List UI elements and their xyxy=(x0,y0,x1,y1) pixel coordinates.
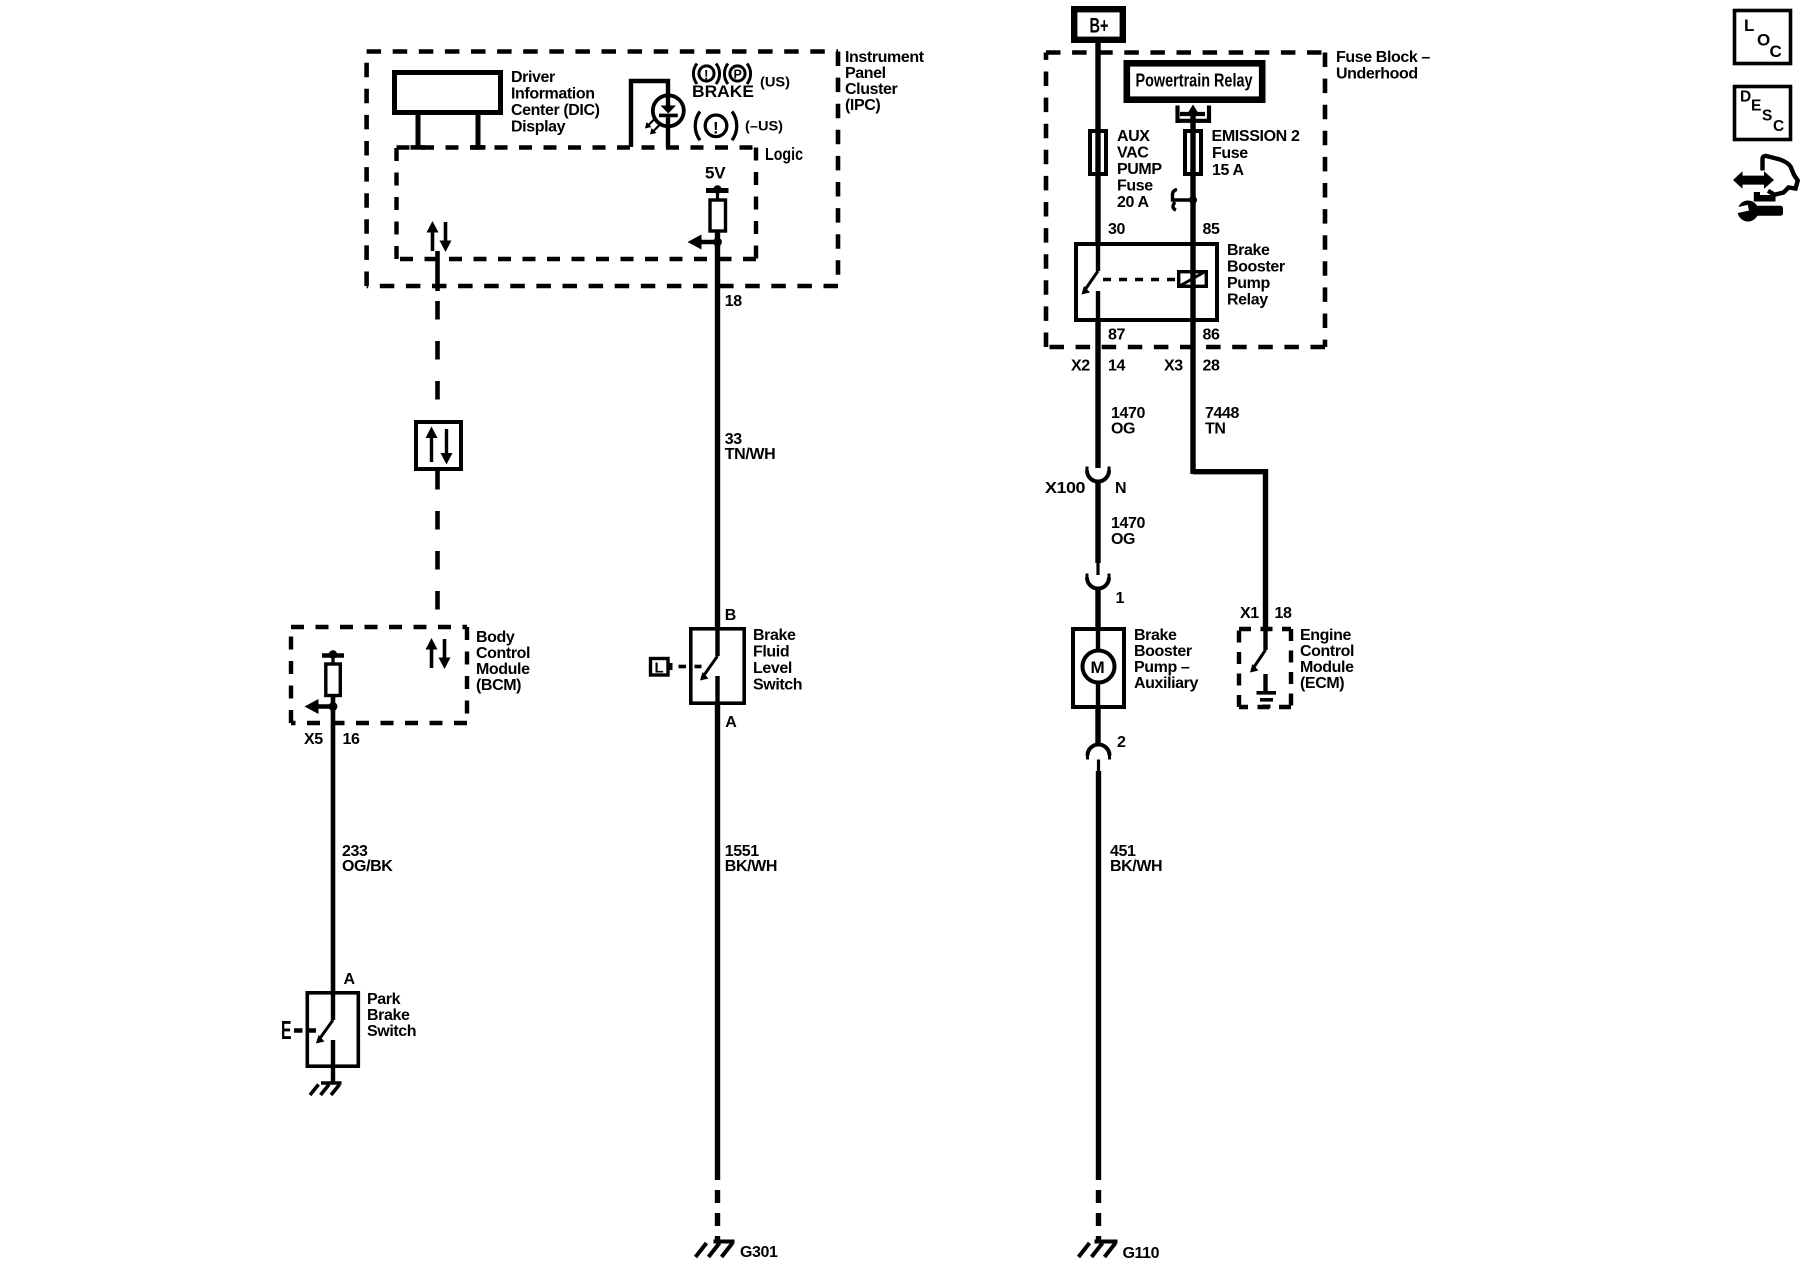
dashed ground lead xyxy=(1096,1190,1101,1240)
svg-text:BRAKE: BRAKE xyxy=(692,82,754,101)
svg-text:X3: X3 xyxy=(1164,358,1183,375)
relay coil xyxy=(1179,272,1207,287)
svg-text:86: 86 xyxy=(1203,327,1220,344)
svg-text:O: O xyxy=(1757,31,1770,50)
svg-text:X5: X5 xyxy=(304,731,323,748)
connector X100 xyxy=(1096,455,1099,468)
svg-text:!: ! xyxy=(704,68,709,83)
svg-text:B+: B+ xyxy=(1090,15,1109,38)
svg-text:Park: Park xyxy=(367,991,401,1008)
LOC nav box xyxy=(1735,11,1791,64)
svg-text:Panel: Panel xyxy=(845,65,886,82)
relay label xyxy=(1227,242,1285,309)
svg-text:Instrument: Instrument xyxy=(845,49,925,66)
svg-text:OG: OG xyxy=(1111,421,1135,438)
svg-text:Brake: Brake xyxy=(1227,242,1270,259)
svg-text:30: 30 xyxy=(1108,221,1125,238)
park brake switch xyxy=(307,993,358,1066)
Logic dashed box xyxy=(397,148,757,260)
svg-text:85: 85 xyxy=(1203,221,1220,238)
pump pin 2 connector xyxy=(1095,709,1100,743)
svg-text:Underhood: Underhood xyxy=(1336,66,1418,83)
svg-text:5V: 5V xyxy=(705,164,726,183)
svg-text:15 A: 15 A xyxy=(1212,162,1244,179)
BCM pull-up resistor xyxy=(322,653,344,658)
svg-text:C: C xyxy=(1773,118,1784,135)
svg-text:16: 16 xyxy=(343,731,360,748)
svg-text:X100: X100 xyxy=(1045,480,1086,497)
Instrument Panel Cluster (IPC) dashed box xyxy=(367,52,838,287)
ground G110 xyxy=(1079,1242,1118,1258)
brake booster pump motor xyxy=(1073,629,1124,707)
navigation icon: wrench xyxy=(1738,201,1759,222)
svg-text:A: A xyxy=(344,971,356,988)
serial data arrows (logic box) xyxy=(427,221,452,252)
svg-text:Control: Control xyxy=(476,645,530,662)
svg-text:Level: Level xyxy=(753,660,792,677)
svg-text:(ECM): (ECM) xyxy=(1300,675,1344,692)
brake fluid level switch label xyxy=(753,627,802,694)
svg-text:Display: Display xyxy=(511,118,566,135)
DESC nav box xyxy=(1735,87,1791,140)
wire: B+ to relay pin 30 xyxy=(1095,43,1100,242)
splice curl xyxy=(1172,190,1190,211)
ground G301 xyxy=(696,1242,735,1258)
svg-text:E: E xyxy=(281,1017,292,1045)
navigation icon: outline arrow xyxy=(1763,156,1798,195)
wire: BCM to park brake switch xyxy=(331,696,336,991)
ECM label xyxy=(1300,627,1354,692)
svg-text:X1: X1 xyxy=(1240,605,1259,622)
AUX VAC PUMP fuse label xyxy=(1117,128,1162,211)
svg-text:(IPC): (IPC) xyxy=(845,97,880,114)
svg-text:E: E xyxy=(1751,98,1761,115)
svg-text:B: B xyxy=(725,607,736,624)
svg-text:S: S xyxy=(1762,108,1772,125)
svg-text:87: 87 xyxy=(1108,327,1125,344)
svg-text:Relay: Relay xyxy=(1227,292,1268,309)
svg-text:G301: G301 xyxy=(740,1244,778,1261)
svg-text:D: D xyxy=(1740,89,1751,106)
svg-text:14: 14 xyxy=(1108,358,1125,375)
svg-text:1470: 1470 xyxy=(1111,515,1145,532)
brake fluid level switch xyxy=(691,629,744,703)
svg-text:18: 18 xyxy=(1275,605,1292,622)
park brake switch ground xyxy=(331,1068,335,1082)
DIC label xyxy=(511,69,600,135)
wire: connector 1 to pump motor xyxy=(1095,589,1100,628)
resistor (IPC pull-up) xyxy=(716,193,719,200)
svg-text:Logic: Logic xyxy=(765,144,803,164)
svg-text:C: C xyxy=(1770,42,1782,61)
svg-text:Information: Information xyxy=(511,85,595,102)
svg-text:Driver: Driver xyxy=(511,69,555,86)
in-line connector pin 1 xyxy=(1096,563,1099,575)
B+ battery feed xyxy=(1074,9,1123,40)
svg-text:Control: Control xyxy=(1300,643,1354,660)
svg-text:28: 28 xyxy=(1203,358,1220,375)
brake fluid level sensor tap (L) xyxy=(651,659,669,676)
wire: relay pin 86 to ECM xyxy=(1190,288,1195,474)
wire: X100 to in-line connector 1 xyxy=(1095,482,1100,564)
BCM label xyxy=(476,629,530,694)
svg-text:(US): (US) xyxy=(760,74,790,90)
wire: relay feed to EMISSION 2 fuse and coil xyxy=(1190,112,1195,270)
svg-text:20 A: 20 A xyxy=(1117,194,1149,211)
dashed ground lead xyxy=(715,1190,720,1240)
EMISSION 2 fuse label xyxy=(1212,128,1300,179)
US brake telltale icon (!) xyxy=(693,64,719,85)
svg-text:OG: OG xyxy=(1111,531,1135,548)
svg-text:P: P xyxy=(734,68,742,82)
relay actuation dashed link xyxy=(1103,278,1176,282)
svg-text:PUMP: PUMP xyxy=(1117,161,1162,178)
signal output arrow xyxy=(697,240,718,245)
wire 451 BK/WH xyxy=(1096,771,1101,1180)
svg-text:VAC: VAC xyxy=(1117,145,1149,162)
IPC label xyxy=(845,49,925,114)
svg-text:BK/WH: BK/WH xyxy=(725,858,777,875)
svg-text:Center (DIC): Center (DIC) xyxy=(511,102,600,119)
svg-text:Booster: Booster xyxy=(1227,259,1285,276)
svg-text:Engine: Engine xyxy=(1300,627,1351,644)
svg-text:N: N xyxy=(1115,480,1126,497)
Engine Control Module (ECM) dashed box xyxy=(1239,629,1291,707)
svg-text:X2: X2 xyxy=(1071,358,1090,375)
svg-text:G110: G110 xyxy=(1123,1245,1160,1262)
ECM internal ground xyxy=(1257,674,1277,706)
DIC Display box xyxy=(395,73,501,148)
svg-text:!: ! xyxy=(713,119,719,138)
brake indicator lamp (LED) xyxy=(653,94,684,128)
svg-text:Fuse: Fuse xyxy=(1212,145,1248,162)
svg-text:L: L xyxy=(1744,16,1754,35)
svg-text:M: M xyxy=(1091,658,1105,677)
Body Control Module (BCM) dashed box xyxy=(291,627,467,723)
svg-text:L: L xyxy=(655,660,664,677)
svg-text:Brake: Brake xyxy=(367,1007,410,1024)
svg-text:1: 1 xyxy=(1116,590,1125,607)
pump motor label xyxy=(1134,627,1198,692)
svg-text:Brake: Brake xyxy=(753,627,796,644)
wire 7448 corner to ECM xyxy=(1193,472,1266,627)
svg-text:OG/BK: OG/BK xyxy=(342,858,393,875)
svg-text:Auxiliary: Auxiliary xyxy=(1134,675,1198,692)
svg-text:18: 18 xyxy=(725,293,742,310)
svg-text:Module: Module xyxy=(1300,659,1354,676)
LED light arrows xyxy=(648,119,660,132)
svg-text:Booster: Booster xyxy=(1134,643,1192,660)
svg-text:Pump –: Pump – xyxy=(1134,659,1190,676)
svg-text:Pump: Pump xyxy=(1227,275,1270,292)
svg-text:AUX: AUX xyxy=(1117,128,1150,145)
relay feed terminal xyxy=(1178,106,1210,124)
BCM sense arrow xyxy=(314,704,333,709)
wire: relay pin 87 to X100 xyxy=(1095,322,1100,468)
Powertrain Relay tag xyxy=(1127,63,1262,99)
svg-text:BK/WH: BK/WH xyxy=(1110,858,1162,875)
svg-text:TN/WH: TN/WH xyxy=(725,446,775,463)
svg-text:Module: Module xyxy=(476,661,530,678)
non-US brake telltale icon (!) xyxy=(695,112,737,141)
serial data symbol box xyxy=(416,422,461,469)
navigation icon: double arrow xyxy=(1733,171,1774,189)
wire: IPC output to brake fluid level switch xyxy=(715,231,720,627)
Fuse Block - Underhood dashed box xyxy=(1046,53,1325,348)
ECM switch xyxy=(1263,627,1267,650)
svg-text:Fuse: Fuse xyxy=(1117,178,1153,195)
svg-text:Switch: Switch xyxy=(753,677,802,694)
park brake switch label xyxy=(367,991,416,1040)
svg-text:TN: TN xyxy=(1205,421,1226,438)
svg-text:Fluid: Fluid xyxy=(753,644,789,661)
svg-text:2: 2 xyxy=(1117,734,1126,751)
svg-text:Body: Body xyxy=(476,629,515,646)
svg-text:7448: 7448 xyxy=(1205,405,1239,422)
svg-text:Fuse Block –: Fuse Block – xyxy=(1336,49,1430,66)
svg-text:Switch: Switch xyxy=(367,1023,416,1040)
svg-text:EMISSION 2: EMISSION 2 xyxy=(1212,128,1300,145)
svg-text:Brake: Brake xyxy=(1134,627,1177,644)
svg-text:Cluster: Cluster xyxy=(845,81,897,98)
svg-text:Powertrain Relay: Powertrain Relay xyxy=(1136,71,1253,91)
wire 1551 BK/WH xyxy=(715,705,720,1180)
svg-text:A: A xyxy=(725,714,737,731)
US brake telltale icon (P) xyxy=(724,64,750,85)
EMISSION 2 fuse xyxy=(1185,131,1201,174)
serial data wire: IPC to BCM xyxy=(435,251,440,291)
svg-text:(–US): (–US) xyxy=(745,118,783,134)
BCM serial data arrows xyxy=(426,638,451,669)
svg-text:(BCM): (BCM) xyxy=(476,677,521,694)
brake indicator lamp wiring bracket xyxy=(631,81,668,147)
relay switch xyxy=(1096,242,1100,271)
svg-text:1470: 1470 xyxy=(1111,405,1145,422)
AUX VAC PUMP fuse xyxy=(1090,131,1106,174)
Brake Booster Pump Relay box xyxy=(1076,244,1217,320)
